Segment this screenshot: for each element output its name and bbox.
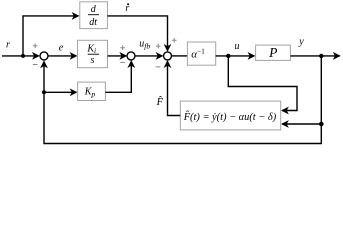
node y feedback junction: [319, 122, 324, 127]
wire e to Ki/s: [48, 55, 76, 57]
wire bottom feedback: [44, 92, 321, 143]
summing junction 1: [40, 52, 48, 60]
wire junction 3 to alpha block: [172, 55, 188, 57]
wire F block output to junction 3 bottom: [168, 61, 181, 115]
wire r input: [2, 55, 39, 57]
svg-text:P: P: [268, 45, 277, 60]
wire junction 2 to junction 3: [135, 55, 162, 57]
svg-text:e: e: [59, 43, 64, 54]
svg-text:F̂: F̂: [156, 95, 164, 108]
node y: [319, 54, 323, 58]
wire d/dt output to junction 3 top: [107, 16, 167, 51]
sign plus junction 1: [33, 44, 38, 49]
sign plus junction 3 left: [156, 44, 161, 49]
wire u feedback to F block upper input: [228, 56, 297, 111]
wire branch to d/dt: [23, 16, 78, 56]
svg-text:r: r: [6, 40, 10, 51]
wire y feedback down: [320, 56, 322, 124]
wire node to Kp: [44, 91, 76, 93]
block F-hat equation: [180, 101, 280, 130]
block alpha inverse: [187, 42, 215, 65]
svg-text:u: u: [235, 41, 240, 52]
block Ki/s: [78, 40, 108, 67]
wire Ki/s to junction 2: [108, 55, 127, 57]
sign minus junction 2: [120, 61, 125, 63]
sign minus junction 1: [33, 64, 38, 66]
svg-text:y: y: [298, 37, 304, 48]
svg-text:−1: −1: [197, 48, 205, 56]
wire alpha to P: [216, 55, 255, 57]
svg-text:s: s: [90, 55, 94, 66]
node u: [226, 54, 230, 58]
sign minus junction 3: [156, 66, 161, 68]
wire feedback up to junction 1: [43, 62, 45, 93]
node Kp branch: [42, 90, 46, 94]
block d/dt: [80, 2, 108, 29]
wire P to output: [290, 55, 339, 57]
wire y node to F block lower input: [282, 123, 321, 125]
sign plus junction 2: [120, 45, 125, 50]
block Kp: [78, 82, 106, 100]
svg-text:F̂(t) = ẏ(t) − αu(t − δ): F̂(t) = ẏ(t) − αu(t − δ): [183, 110, 277, 123]
node r branch: [21, 54, 25, 58]
summing junction 2: [127, 52, 135, 60]
sign plus junction 3 top right: [172, 38, 177, 43]
svg-text:dt: dt: [89, 17, 97, 28]
wire Kp output to junction 2 bottom: [105, 61, 131, 92]
summing junction 3: [164, 52, 172, 60]
block P: [256, 45, 291, 60]
